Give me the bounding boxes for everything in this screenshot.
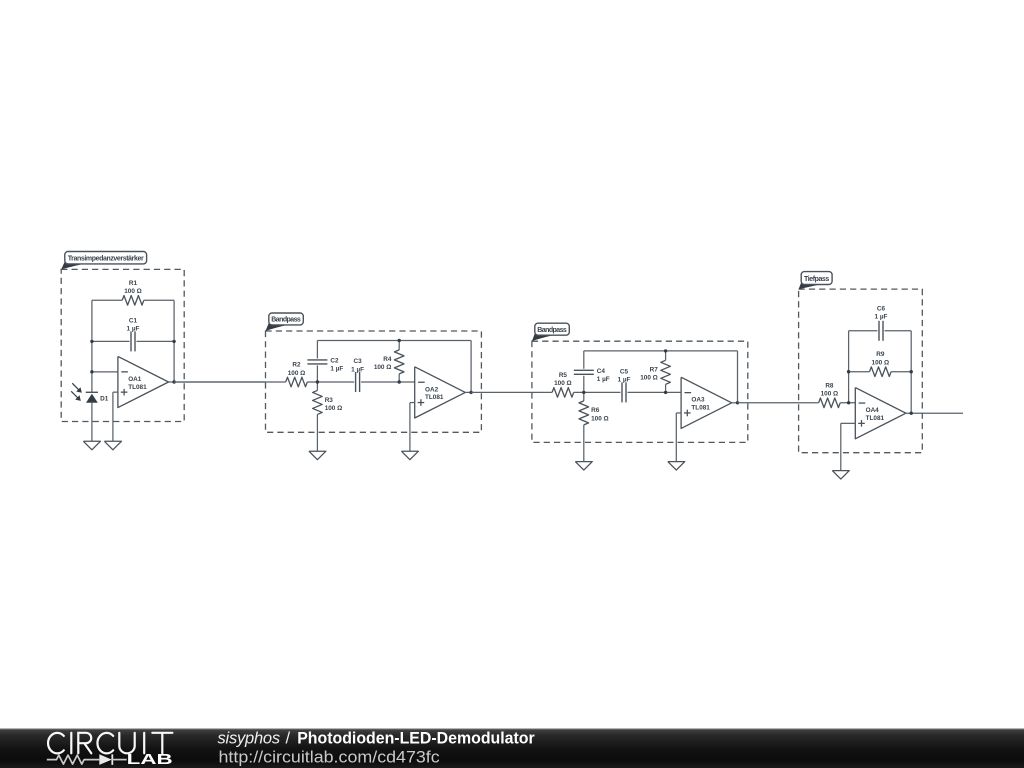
svg-text:R1: R1 [129,280,138,287]
svg-text:1 µF: 1 µF [597,376,610,383]
svg-text:Photodioden-LED-Demodulator: Photodioden-LED-Demodulator [297,730,535,748]
svg-text:100 Ω: 100 Ω [124,288,142,295]
svg-text:100 Ω: 100 Ω [554,380,572,387]
svg-text:LAB: LAB [127,751,173,768]
svg-text:1 µF: 1 µF [618,377,631,384]
svg-text:Tiefpass: Tiefpass [804,276,829,283]
svg-text:100 Ω: 100 Ω [872,360,890,367]
svg-text:/: / [286,730,291,748]
svg-text:OA4: OA4 [866,407,880,414]
svg-text:R8: R8 [825,382,834,389]
svg-text:R5: R5 [559,372,568,379]
svg-text:R7: R7 [650,366,659,373]
svg-text:OA3: OA3 [691,397,705,404]
svg-text:TL081: TL081 [128,384,147,391]
svg-text:100 Ω: 100 Ω [821,391,839,398]
svg-text:100 Ω: 100 Ω [288,370,306,377]
svg-text:C5: C5 [620,368,629,375]
svg-text:C4: C4 [597,368,606,375]
svg-text:1 µF: 1 µF [127,326,140,333]
svg-text:C3: C3 [354,358,363,365]
svg-text:100 Ω: 100 Ω [325,405,343,412]
svg-text:D1: D1 [100,396,109,403]
svg-text:100 Ω: 100 Ω [640,374,658,381]
svg-text:R4: R4 [383,356,392,363]
svg-text:100 Ω: 100 Ω [591,415,609,422]
svg-text:R9: R9 [876,351,885,358]
svg-text:C1: C1 [129,317,138,324]
svg-text:1 µF: 1 µF [330,366,343,373]
svg-text:Transimpedanzverstärker: Transimpedanzverstärker [68,256,144,263]
svg-text:R2: R2 [292,362,301,369]
svg-text:TL081: TL081 [425,394,444,401]
svg-text:C6: C6 [877,305,886,312]
svg-text:Bandpass: Bandpass [271,317,301,324]
svg-text:C2: C2 [330,357,339,364]
svg-text:TL081: TL081 [691,405,710,412]
svg-text:R3: R3 [325,397,334,404]
svg-text:OA1: OA1 [128,376,142,383]
svg-text:Bandpass: Bandpass [537,327,567,334]
svg-text:http://circuitlab.com/cd473fc: http://circuitlab.com/cd473fc [219,748,440,766]
svg-text:R6: R6 [591,407,600,414]
svg-text:1 µF: 1 µF [875,313,888,320]
svg-text:OA2: OA2 [425,386,439,393]
svg-text:100 Ω: 100 Ω [374,364,392,371]
svg-text:1 µF: 1 µF [351,366,364,373]
svg-text:TL081: TL081 [866,415,885,422]
svg-text:sisyphos: sisyphos [218,730,281,748]
